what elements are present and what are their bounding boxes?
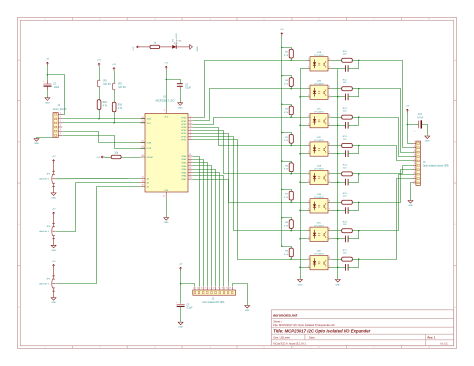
wire GPB7 to opto row 8 [193,140,308,260]
wire [180,307,182,322]
U1 pin 6 GPB5 [188,132,192,134]
svg-text:2: 2 [308,180,309,182]
wire [407,143,413,145]
svg-text:I2C PU: I2C PU [104,84,112,86]
junction [337,125,338,126]
svg-text:4: 4 [209,19,210,21]
ground (J2) [245,306,250,309]
jumper JP2 [113,82,116,84]
resistor R9 4.7k [282,247,292,249]
wire [331,96,338,98]
junction [180,283,181,284]
svg-text:5: 5 [190,128,191,130]
svg-text:+5V: +5V [280,29,284,31]
svg-text:6: 6 [60,133,61,135]
svg-text:2: 2 [99,19,100,21]
junction [337,238,338,239]
svg-text:3: 3 [154,19,155,21]
wire [358,146,360,154]
svg-text:GPB6: GPB6 [181,136,187,138]
power flag +5V (R18) [98,63,100,66]
wire [352,60,359,62]
junction [98,118,99,119]
U1 pin 25 GPA4 [188,168,192,170]
wire [358,202,360,210]
junction [407,124,408,125]
svg-text:10: 10 [229,288,231,290]
svg-text:GND: GND [197,46,199,51]
wire [114,90,116,102]
resistor R7 4.7k [282,190,292,192]
svg-text:2: 2 [308,123,309,125]
wire opto row 4 to J3 pin 5 [359,146,414,161]
capacitor C12 [338,267,346,269]
junction [299,267,300,268]
resistor R18 4.7k [97,100,101,110]
ground (J3) [408,201,413,204]
svg-text:+5V: +5V [52,261,56,263]
svg-text:5: 5 [414,159,415,161]
svg-text:1: 1 [414,141,415,143]
svg-text:8: 8 [329,229,330,231]
resistor R2 4.7k [282,48,292,50]
svg-text:23: 23 [189,161,191,163]
svg-text:GND: GND [245,310,250,312]
wire [331,238,338,240]
svg-text:GND: GND [298,285,303,287]
svg-text:1: 1 [308,87,309,89]
junction (+5V rail row 4) [281,132,282,133]
svg-text:GND: GND [425,141,430,143]
wire [48,75,65,115]
wire [358,117,360,125]
junction [290,145,291,146]
junction [358,258,359,259]
junction (+5V rail row 7) [281,217,282,218]
svg-text:+5V: +5V [96,157,100,159]
wire [352,173,359,175]
wire [47,66,49,81]
svg-text:GND: GND [51,198,56,200]
ground (C3) [178,322,183,325]
wire [167,80,181,83]
wire [105,157,112,159]
svg-text:7: 7 [190,135,191,137]
wire [331,182,338,184]
wire opto row 1 to J3 pin 2 [359,61,414,148]
svg-text:0.1uF: 0.1uF [187,308,193,310]
wire [352,145,359,147]
wire [291,228,293,230]
junction [358,230,359,231]
U1 pin 13 SDA [141,118,145,120]
junction [166,79,167,80]
resistor R12 220 [331,117,342,119]
svg-text:8: 8 [329,257,330,259]
svg-text:10: 10 [163,196,165,198]
svg-text:GND: GND [335,285,340,287]
U1 pin 22 GPA1 [188,158,192,160]
U1 pin 28 GPA7 [188,178,192,180]
wire INTA [63,132,146,143]
power flag +5V (R19) [113,68,115,71]
resistor R17 1k [150,45,160,48]
svg-text:1: 1 [308,115,309,117]
svg-text:GPB7: GPB7 [181,139,187,141]
ground (LED) [190,45,193,50]
svg-text:8: 8 [414,172,415,174]
svg-text:8: 8 [329,87,330,89]
wire [331,153,338,155]
svg-text:1: 1 [308,58,309,60]
wire [300,125,308,127]
U1 pin 8 GPB7 [188,139,192,141]
svg-text:27: 27 [189,174,191,176]
U1 pin 24 GPA3 [188,165,192,167]
resistor R16 220 [331,230,342,232]
svg-text:GND: GND [178,107,183,109]
svg-text:2: 2 [190,119,191,121]
U1 pin 12 SCK [141,122,145,124]
wire GPA6 to J2 pin 8 [193,176,224,287]
svg-text:26: 26 [189,171,191,173]
svg-text:+5V: +5V [52,209,56,211]
resistor R6 4.7k [282,162,292,163]
wire [166,198,168,217]
svg-text:6: 6 [190,131,191,133]
wire [331,210,338,212]
svg-text:1: 1 [308,257,309,259]
power flag +5V (C1) [46,62,48,65]
junction [358,60,359,61]
svg-text:GPB4: GPB4 [181,130,187,132]
svg-text:12: 12 [142,121,144,123]
wire [331,125,338,127]
wire [37,137,54,139]
wire [358,89,360,97]
svg-text:U5B: U5B [317,194,322,196]
resistor R3 4.7k [282,76,292,78]
svg-text:GPB2: GPB2 [181,124,187,126]
svg-text:1: 1 [193,288,194,290]
svg-text:5: 5 [263,347,264,349]
junction (+5V rail row 8) [281,246,282,247]
capacitor C9 [338,182,346,184]
svg-text:LED: LED [178,41,182,43]
wire [352,259,359,261]
junction [299,96,300,97]
jumper JP5 Addr Bit 2 [53,265,55,268]
resistor R20 10k [111,155,121,158]
wire [121,157,141,159]
junction (+5V rail row 1) [281,47,282,48]
svg-text:5: 5 [209,288,210,290]
wire GPB0 to opto row 1 [193,61,308,118]
ground (C17) [425,136,430,139]
svg-text:15: 15 [142,185,144,187]
wire GPB1 to opto row 2 [193,89,308,121]
junction (+5V rail row 2) [281,75,282,76]
wire GPA0 to J2 pin 2 [193,157,200,287]
wire [99,87,101,100]
wire [181,284,195,287]
junction (+5V rail row 5) [281,160,282,161]
junction [358,88,359,89]
wire [300,238,308,240]
svg-text:3: 3 [190,122,191,124]
svg-text:4: 4 [190,125,191,127]
junction [47,74,48,75]
wire [358,60,360,68]
svg-text:10: 10 [413,181,415,183]
wire [176,46,189,48]
svg-text:3: 3 [414,150,415,152]
wire SCL [62,122,145,124]
svg-text:7: 7 [218,288,219,290]
junction [337,210,338,211]
junction [358,202,359,203]
resistor R11 220 [331,88,342,90]
svg-text:20: 20 [142,141,144,143]
svg-text:8: 8 [428,19,429,21]
U1 pin 20 INTA [141,142,145,144]
ground (J1) [36,137,38,138]
wire A2 [56,187,141,284]
svg-text:13: 13 [142,117,144,119]
svg-text:1: 1 [44,19,45,21]
svg-text:2: 2 [308,265,309,267]
svg-text:+5V: +5V [97,60,101,62]
svg-text:7: 7 [373,19,374,21]
U1 pin 4 GPB3 [188,126,192,128]
junction [337,96,338,97]
resistor R19 4.7k [112,102,116,112]
svg-text:1: 1 [44,347,45,349]
wire [352,88,359,90]
svg-text:+5V: +5V [179,264,183,266]
resistor R13 220 [331,145,342,147]
svg-text:4.7uF: 4.7uF [417,117,423,119]
junction [290,173,291,174]
svg-text:U2C: U2C [317,109,322,111]
wire [407,113,409,144]
svg-text:8: 8 [222,288,223,290]
wire [99,67,101,81]
svg-text:7: 7 [329,237,330,239]
svg-text:2: 2 [308,152,309,154]
wire [291,143,293,145]
svg-text:1: 1 [308,229,309,231]
junction [299,153,300,154]
capacitor C8 [338,153,346,155]
svg-text:GND: GND [51,302,56,304]
LED D1 [172,45,176,49]
junction [299,238,300,239]
wire opto row 5 to J3 pin 6 [359,166,414,174]
wire GPA4 to J2 pin 6 [193,170,216,287]
power flag +5V (J3) [406,109,408,112]
wire A0 [55,177,140,179]
svg-text:4: 4 [414,154,415,156]
U1 pin 23 GPA2 [188,162,192,164]
wire [114,71,116,83]
ground [45,98,50,101]
resistor R8 4.7k [282,218,292,220]
svg-text:8: 8 [329,144,330,146]
svg-text:Title: MCP23017 I2C Opto Isola: Title: MCP23017 I2C Opto Isolated I/O Ex… [273,328,370,333]
U1 pin 3 GPB2 [188,123,192,125]
wire GPB2 to opto row 3 [193,118,308,125]
wire [358,174,360,182]
junction [358,116,359,117]
svg-text:7: 7 [373,347,374,349]
U1 pin 26 GPA5 [188,172,192,174]
wire [180,89,182,103]
svg-text:6: 6 [318,19,319,21]
svg-text:9: 9 [226,288,227,290]
svg-text:4: 4 [205,288,206,290]
junction [290,88,291,89]
U1 pin 15 A2 [141,185,145,187]
svg-text:U5C: U5C [317,222,322,224]
svg-text:16: 16 [142,181,144,183]
svg-text:7: 7 [329,95,330,97]
svg-text:21: 21 [189,154,191,156]
svg-text:GPB3: GPB3 [181,127,187,129]
title block [271,310,453,346]
connector J3 Opto isolated inputs GPB [416,141,421,185]
ground (opto left rail) [298,280,303,283]
svg-text:5: 5 [263,19,264,21]
svg-text:18: 18 [142,155,144,157]
U1 pin 27 GPA6 [188,175,192,177]
wire GPB5 to opto row 6 [193,134,308,203]
jumper JP1 [98,79,101,81]
U1 pin 5 GPB4 [188,129,192,131]
wire opto row 2 to J3 pin 3 [359,89,414,153]
wire [300,182,308,184]
wire [300,96,308,98]
wire opto row 6 to J3 pin 7 [359,170,414,203]
wire [331,267,338,269]
junction [299,210,300,211]
svg-text:GPB1: GPB1 [181,121,187,123]
svg-text:2: 2 [414,146,415,148]
svg-text:1: 1 [60,112,61,114]
resistor R14 220 [331,173,342,175]
svg-text:GND: GND [34,143,39,145]
capacitor C7 [338,125,346,127]
power flag +5V (RESET) [101,156,104,158]
svg-text:9: 9 [414,176,415,178]
svg-text:6: 6 [318,347,319,349]
svg-text:U5D: U5D [317,251,322,253]
svg-text:4: 4 [209,347,210,349]
svg-text:GPB0: GPB0 [181,118,187,120]
capacitor C11 [338,238,346,240]
svg-text:GND: GND [408,205,413,207]
junction (+5V rail row 3) [281,104,282,105]
ground (U1 VSS) [164,218,169,221]
svg-text:+5V: +5V [52,156,56,158]
capacitor C10 [338,210,346,212]
svg-text:GND: GND [51,250,56,252]
wire [358,259,360,267]
svg-text:7: 7 [414,168,415,170]
svg-text:25: 25 [189,167,191,169]
wire GPB4 to opto row 5 [193,131,308,174]
junction [290,60,291,61]
svg-text:C17: C17 [418,114,423,116]
svg-text:7: 7 [329,180,330,182]
capacitor C5 [338,68,346,70]
wire INTB [63,136,146,149]
svg-text:5: 5 [60,129,61,131]
svg-text:U2B: U2B [317,80,322,82]
resistor R17 220 [331,259,342,261]
capacitor C6 [338,96,346,98]
wire [300,267,308,269]
wire [160,46,172,48]
wire [291,115,293,117]
svg-text:I2C PU: I2C PU [119,87,127,89]
wire [300,210,308,212]
ground (opto right rail) [335,280,340,283]
wire [300,153,308,155]
svg-text:GND: GND [164,222,169,224]
U1 pin 7 GPB6 [188,135,192,137]
svg-text:2: 2 [308,237,309,239]
wire SDA [62,118,145,120]
svg-text:+5V: +5V [164,63,168,65]
svg-text:+5V: +5V [405,106,409,108]
wire [114,112,116,123]
wire [140,46,150,48]
wire [352,117,359,119]
wire [47,90,49,98]
junction (+5V rail row 6) [281,189,282,190]
power flag +5V (J2) [180,267,182,270]
power flag +5V (opto rail) [281,33,283,36]
capacitor C17 4.7uF [407,124,418,126]
wire [422,125,428,136]
wire GPB6 to opto row 7 [193,137,308,231]
junction [299,181,300,182]
resistor R5 4.7k [282,133,292,135]
svg-text:4: 4 [60,125,61,127]
svg-text:+5V: +5V [45,59,49,61]
svg-text:24: 24 [189,164,191,166]
svg-text:28: 28 [189,177,191,179]
svg-text:RESET: RESET [147,157,154,159]
power flag +5V (LED) [137,46,141,48]
wire LED common rail (left) [300,69,302,280]
svg-text:Conn_01x06: Conn_01x06 [53,108,67,111]
svg-text:9: 9 [164,110,165,112]
wire opto row 3 to J3 pin 4 [359,118,414,157]
U1 pin 17 A0 [141,177,145,179]
svg-text:8: 8 [190,138,191,140]
junction [337,267,338,268]
junction [299,125,300,126]
U1 pin 1 GPB0 [188,117,192,119]
junction [337,153,338,154]
power flag +5V (VDD) [165,66,167,69]
svg-text:+5V: +5V [133,46,135,50]
svg-text:7: 7 [329,67,330,69]
U1 pin 16 A1 [141,181,145,183]
wire [291,58,293,60]
